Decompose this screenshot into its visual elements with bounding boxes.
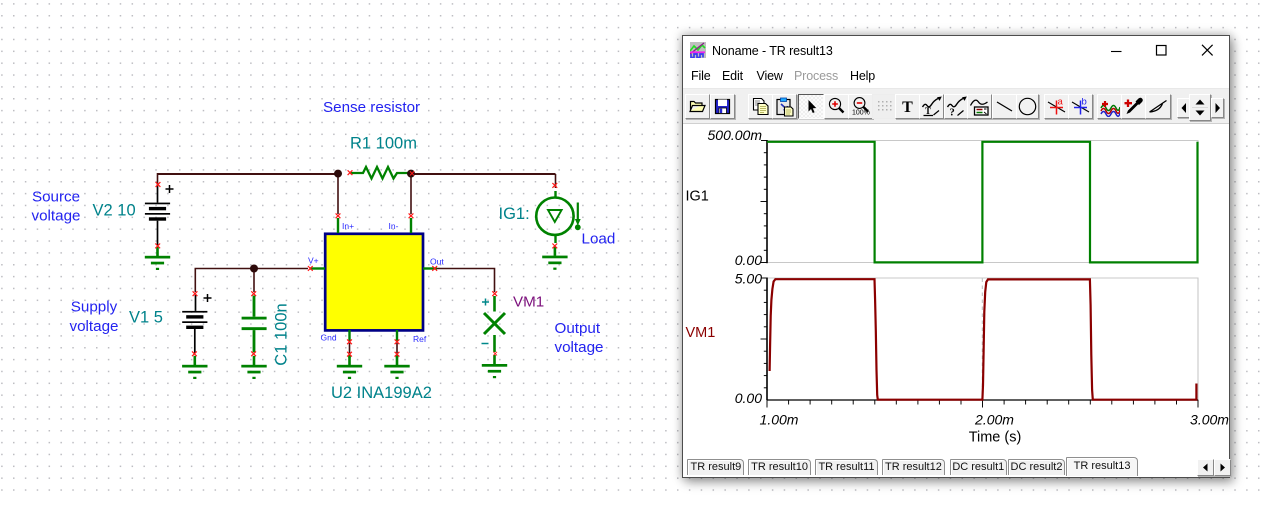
x ticks: [767, 400, 1198, 408]
svg-text:Supply: Supply: [71, 299, 118, 316]
svg-text:voltage: voltage: [555, 339, 604, 356]
wire top rail V2->nodeA: [158, 173, 339, 175]
VM1 trace: [770, 279, 1197, 400]
terminal x V2 minus: [155, 244, 160, 249]
voltmeter VM1: [484, 296, 505, 352]
title bar icon: [690, 42, 706, 58]
svg-text:Source: Source: [32, 189, 80, 206]
ground IG1: [542, 247, 567, 270]
cursor-b probe button: [944, 94, 969, 119]
terminal x In-: [409, 213, 414, 218]
terminal x VM1 top: [492, 291, 497, 296]
tab TR result13 active: [1066, 457, 1138, 476]
result window: [682, 35, 1230, 478]
add curves button: [1097, 94, 1122, 119]
zoom out button: [848, 94, 873, 119]
plot1 frame: [767, 141, 1198, 263]
plus sign V2: [166, 185, 174, 193]
line button: [992, 94, 1017, 119]
svg-text:voltage: voltage: [70, 318, 119, 335]
nav left button: [1177, 98, 1190, 118]
pin stub In-: [410, 218, 412, 233]
zoom in button: [824, 94, 849, 119]
wire V2 top stub: [157, 173, 159, 187]
svg-text:Ref: Ref: [413, 334, 427, 344]
current source IG1: [536, 191, 581, 243]
grid button (disabled): [872, 94, 897, 119]
battery V2: [145, 187, 170, 246]
picker button: [1121, 94, 1146, 119]
cursor-a probe button: [919, 94, 944, 119]
svg-text:IG1:: IG1:: [499, 205, 530, 223]
plot2 y ticks: [761, 278, 768, 388]
phasor button: [1145, 94, 1171, 119]
plot1 y-axis: [766, 140, 768, 263]
svg-text:voltage: voltage: [32, 208, 81, 225]
wire V+ rail: [195, 269, 308, 293]
plot1 y ticks: [761, 141, 768, 263]
pin stub V+: [310, 267, 325, 269]
legend button: [967, 94, 992, 119]
pin stub Out: [423, 267, 437, 269]
text button: [895, 94, 920, 119]
wire Out to VM1: [436, 269, 495, 293]
terminal x Ref ground: [395, 352, 400, 357]
svg-text:a: a: [1057, 97, 1063, 108]
terminal x In+: [336, 213, 341, 218]
cursor dashed line: [981, 279, 983, 400]
vm plus: [482, 299, 489, 306]
plot2 frame: [767, 278, 1198, 400]
pin stub Ref top: [396, 330, 398, 341]
tab nav left: [1197, 459, 1214, 476]
node A: [334, 170, 342, 178]
pin stub Ref bottom + ground: [396, 355, 398, 358]
svg-text:Output: Output: [555, 320, 601, 337]
tab TR result11: [815, 459, 879, 475]
ellipse button: [1016, 94, 1039, 119]
wire C1 tap: [253, 269, 255, 293]
battery V1: [182, 295, 207, 353]
ground V1: [182, 356, 207, 379]
copy button: [748, 94, 773, 119]
open button: [685, 94, 710, 119]
svg-text:?: ?: [949, 108, 954, 118]
svg-text:V+: V+: [308, 256, 319, 266]
plus sign V1: [204, 294, 212, 302]
svg-text:C1 100n: C1 100n: [273, 303, 291, 365]
wire Ref pin mid: [396, 343, 398, 353]
maximize: [1153, 42, 1169, 58]
ground V2: [145, 247, 170, 270]
svg-text:b: b: [1081, 97, 1086, 108]
save button: [710, 94, 735, 119]
svg-text:Gnd: Gnd: [321, 333, 337, 343]
wire nodeA down to In+: [337, 174, 339, 214]
ground C1: [241, 356, 266, 379]
cursor a button: [1044, 94, 1069, 119]
resistor R1: [350, 167, 409, 179]
close: [1199, 42, 1215, 58]
vm minus: [482, 343, 489, 345]
terminal x Ref pin: [395, 339, 400, 344]
terminal x V1 minus: [192, 351, 197, 356]
nav right button: [1211, 98, 1224, 118]
tab DC result2: [1008, 459, 1065, 475]
tab TR result12: [882, 459, 946, 475]
svg-text:T: T: [925, 106, 931, 116]
ground VM1: [482, 355, 507, 378]
x-axis: [767, 399, 1198, 401]
svg-text:VM1: VM1: [513, 294, 544, 311]
pin stub Gnd bottom + ground: [348, 355, 350, 358]
terminal x V+: [308, 266, 313, 271]
svg-text:R1 100m: R1 100m: [350, 135, 417, 153]
pin stub In+: [337, 218, 339, 233]
svg-text:V1 5: V1 5: [129, 309, 163, 327]
terminal x Out: [432, 266, 437, 271]
svg-text:Sense resistor: Sense resistor: [323, 99, 420, 116]
svg-text:Load: Load: [582, 231, 616, 248]
tab TR result9: [687, 459, 744, 475]
wire nodeB->IG1 top: [411, 173, 556, 175]
terminal x VM1 bottom: [493, 352, 497, 356]
svg-text:Out: Out: [430, 257, 444, 267]
op-amp U2 box: [325, 234, 423, 331]
pin stub Gnd top: [348, 330, 350, 341]
terminal x V2 plus: [156, 182, 161, 187]
node B: [407, 170, 415, 178]
terminal x Gnd pin: [347, 339, 352, 344]
tab TR result10: [748, 459, 812, 475]
terminal x R1 right: [410, 171, 414, 175]
svg-text:In+: In+: [342, 221, 354, 231]
svg-text:In-: In-: [389, 221, 399, 231]
cursor button (selected): [798, 94, 824, 119]
nav spinner button: [1189, 94, 1211, 121]
plot2 y-axis: [766, 278, 768, 401]
minimize: [1109, 44, 1125, 60]
wire Gnd pin mid: [349, 343, 351, 353]
svg-text:T: T: [902, 99, 913, 116]
terminal x Gnd ground: [347, 352, 352, 357]
svg-text:100%: 100%: [852, 110, 870, 117]
terminal x V1 plus: [193, 291, 198, 296]
cursor b button: [1068, 94, 1093, 119]
node V+ junction: [250, 265, 258, 273]
terminal x IG1 top: [552, 183, 557, 188]
tab nav right: [1214, 459, 1231, 476]
terminal x IG1 bottom: [552, 244, 557, 249]
IG1 trace: [767, 142, 1198, 263]
terminal x C1 top: [251, 291, 256, 296]
tab DC result1: [950, 459, 1007, 475]
wire nodeB down to In-: [410, 174, 412, 214]
paste button: [772, 94, 797, 119]
svg-text:V2 10: V2 10: [93, 202, 136, 220]
svg-text:U2 INA199A2: U2 INA199A2: [331, 384, 432, 402]
wire IG1 top stub: [555, 174, 557, 188]
terminal x C1 bottom: [251, 351, 256, 356]
terminal x R1 left: [348, 170, 353, 175]
capacitor C1: [242, 296, 267, 353]
